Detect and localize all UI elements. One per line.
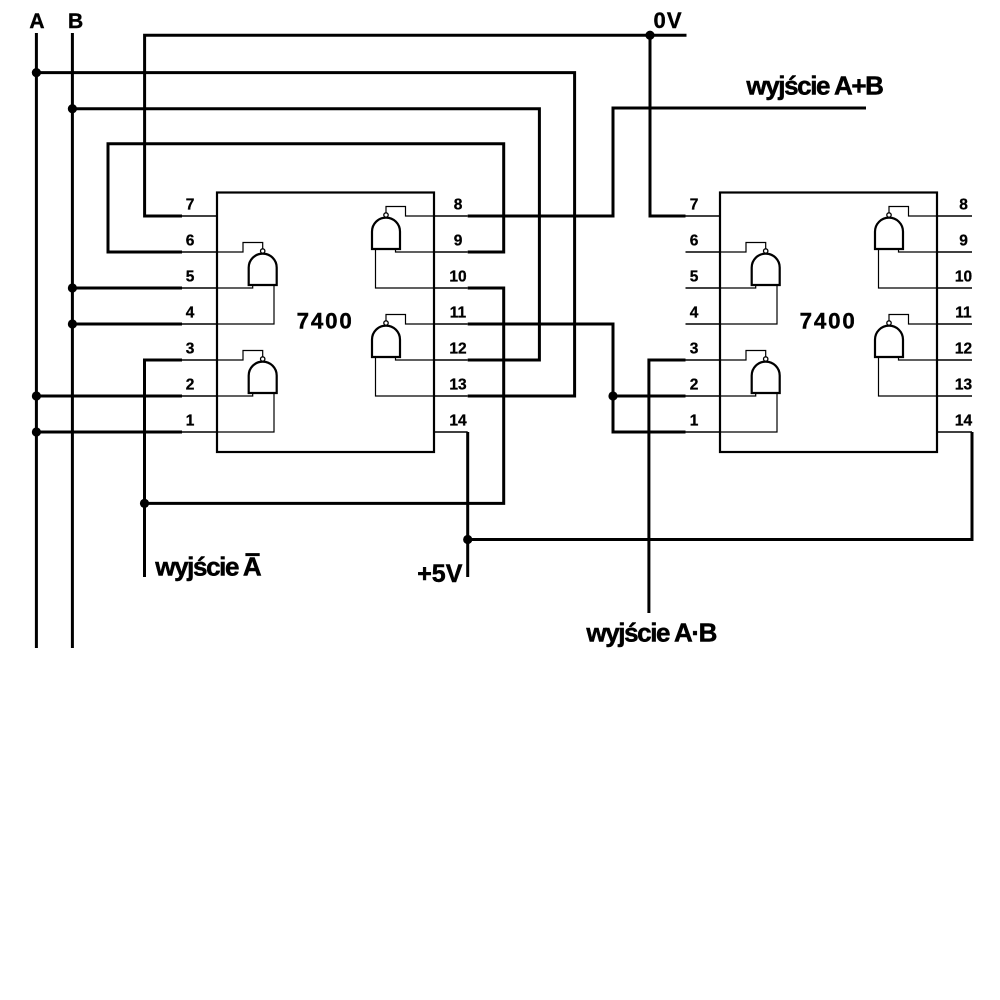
wire +5V node to U2 pin 14 xyxy=(468,432,972,540)
wire U1D input pin 13 xyxy=(376,357,435,396)
wire U2B output to pin 6 xyxy=(720,243,766,253)
pin 5 stub (U2) xyxy=(686,287,722,289)
wire U1 pin 11 to U2 pin 1 xyxy=(468,324,686,432)
wire U2 pin 3 to output A.B stub xyxy=(649,360,686,613)
NAND gate U2D body (output pin 11) xyxy=(875,321,903,357)
NAND gate U2B body (output pin 6) xyxy=(752,249,780,285)
svg-text:9: 9 xyxy=(454,232,463,249)
pin 2 stub (U1) xyxy=(182,395,218,397)
pin 8 stub (U1) xyxy=(433,215,468,217)
svg-text:10: 10 xyxy=(955,268,972,285)
wire A to U1 pin 13 xyxy=(36,73,574,396)
wire U2C input pin 9 xyxy=(899,249,938,252)
pin 14 stub (U2) xyxy=(936,431,972,433)
svg-text:8: 8 xyxy=(959,196,968,213)
wire U1D input pin 12 xyxy=(396,357,435,360)
svg-text:3: 3 xyxy=(690,340,699,357)
svg-text:1: 1 xyxy=(186,412,195,429)
wire U1 pin 8 to output A+B xyxy=(468,108,866,216)
svg-text:11: 11 xyxy=(450,304,467,321)
svg-text:wyjście A·B: wyjście A·B xyxy=(585,618,716,648)
svg-text:12: 12 xyxy=(449,340,466,357)
wire U2D input pin 12 xyxy=(899,357,938,360)
pin 6 stub (U2) xyxy=(686,251,722,253)
NAND gate U1A body (output pin 3) xyxy=(249,357,277,393)
svg-text:0V: 0V xyxy=(654,8,683,33)
svg-text:6: 6 xyxy=(186,232,195,249)
svg-text:14: 14 xyxy=(449,412,467,429)
wire U1 pin 14 to +5V stub xyxy=(466,432,469,577)
svg-text:3: 3 xyxy=(186,340,195,357)
NAND gate U1D body (output pin 11) xyxy=(372,321,400,357)
wire B to U1 pin 5 xyxy=(72,287,182,290)
svg-text:7: 7 xyxy=(186,196,195,213)
IC U2 7400 package outline xyxy=(720,193,937,453)
pin 11 stub (U2) xyxy=(936,323,972,325)
pin 3 stub (U2) xyxy=(686,359,722,361)
wire U1B output to pin 6 xyxy=(217,243,263,253)
pin 7 stub (U1) xyxy=(182,215,218,217)
svg-text:9: 9 xyxy=(959,232,968,249)
junction dot B / pin 5 xyxy=(68,283,77,292)
pin 13 stub (U2) xyxy=(936,395,972,397)
junction dot B upper xyxy=(68,104,77,113)
junction dot U2 pin 2 node xyxy=(608,391,617,400)
pin 1 stub (U1) xyxy=(182,431,218,433)
wire U1A input pin 2 xyxy=(217,393,253,396)
junction dot B / pin 4 xyxy=(68,319,77,328)
svg-text:14: 14 xyxy=(955,412,973,429)
svg-text:1: 1 xyxy=(690,412,699,429)
svg-text:8: 8 xyxy=(454,196,463,213)
svg-text:2: 2 xyxy=(186,376,195,393)
wire A-bar node to U1 pin 10 xyxy=(145,288,504,503)
wire U2C input pin 10 xyxy=(879,249,938,288)
svg-text:13: 13 xyxy=(955,376,973,393)
svg-text:5: 5 xyxy=(690,268,699,285)
junction dot A / pin 2 xyxy=(32,391,41,400)
input rail A (vertical) xyxy=(35,33,38,648)
pin 8 stub (U2) xyxy=(936,215,972,217)
pin 7 stub (U2) xyxy=(686,215,722,217)
wire U1B input pin 5 xyxy=(217,285,253,288)
pin 12 stub (U2) xyxy=(936,359,972,361)
wire B to U1 pin 12 xyxy=(72,109,539,360)
svg-text:2: 2 xyxy=(690,376,699,393)
junction dot A / pin 1 xyxy=(32,427,41,436)
pin 11 stub (U1) xyxy=(433,323,468,325)
svg-text:5: 5 xyxy=(186,268,195,285)
junction dot A upper xyxy=(32,68,41,77)
wire node to U2 pin 2 xyxy=(613,395,686,398)
pin 6 stub (U1) xyxy=(182,251,218,253)
wire B to U1 pin 4 xyxy=(72,323,182,326)
pin 13 stub (U1) xyxy=(433,395,468,397)
pin 4 stub (U1) xyxy=(182,323,218,325)
pin 2 stub (U2) xyxy=(686,395,722,397)
wire U2B input pin 5 xyxy=(720,285,756,288)
svg-text:6: 6 xyxy=(690,232,699,249)
wire U2D input pin 13 xyxy=(879,357,938,396)
pin 1 stub (U2) xyxy=(686,431,722,433)
pin 3 stub (U1) xyxy=(182,359,218,361)
svg-text:12: 12 xyxy=(955,340,972,357)
wire A to U1 pin 1 xyxy=(36,431,182,434)
svg-text:+5V: +5V xyxy=(417,560,463,588)
svg-text:B: B xyxy=(68,10,83,33)
pin 10 stub (U2) xyxy=(936,287,972,289)
svg-text:10: 10 xyxy=(449,268,466,285)
wire A to U1 pin 2 xyxy=(36,395,182,398)
wire U1D output to pin 11 xyxy=(386,315,434,325)
wire U2C output to pin 8 xyxy=(889,207,937,217)
wire U1A output to pin 3 xyxy=(217,351,263,361)
wire U2A output to pin 3 xyxy=(720,351,766,361)
wire U2A input pin 2 xyxy=(720,393,756,396)
svg-text:A: A xyxy=(29,10,44,33)
NAND gate U1B body (output pin 6) xyxy=(249,249,277,285)
pin 12 stub (U1) xyxy=(433,359,468,361)
svg-text:7400: 7400 xyxy=(297,308,354,333)
pin 9 stub (U2) xyxy=(936,251,972,253)
svg-text:7: 7 xyxy=(690,196,699,213)
wire U1A input pin 1 xyxy=(217,393,274,432)
pin 10 stub (U1) xyxy=(433,287,468,289)
pin 4 stub (U2) xyxy=(686,323,722,325)
junction dot 0V node xyxy=(645,31,654,40)
pin 9 stub (U1) xyxy=(433,251,468,253)
wire U1C output to pin 8 xyxy=(386,207,434,217)
svg-text:13: 13 xyxy=(449,376,467,393)
svg-text:wyjście A+B: wyjście A+B xyxy=(745,70,883,100)
NAND gate U2A body (output pin 3) xyxy=(752,357,780,393)
svg-text:4: 4 xyxy=(186,304,195,321)
wire U2A input pin 1 xyxy=(720,393,777,432)
wire U1 pin 6 to U1 pin 9 xyxy=(108,144,504,252)
svg-text:7400: 7400 xyxy=(800,308,857,333)
overline of A-bar xyxy=(245,553,259,556)
pin 14 stub (U1) xyxy=(433,431,468,433)
wire 0V node down to U2 pin 7 xyxy=(650,35,686,216)
wire 0V rail to U1 pin 7 xyxy=(145,35,687,216)
wire U1C input pin 10 xyxy=(376,249,435,288)
NAND gate U1C body (output pin 8) xyxy=(372,213,400,249)
IC U1 7400 package outline xyxy=(217,193,434,453)
input rail B (vertical) xyxy=(71,33,74,648)
NAND gate U2C body (output pin 8) xyxy=(875,213,903,249)
junction dot A-bar node xyxy=(140,499,149,508)
wire U1 pin 3 to output A-bar stub xyxy=(145,360,183,577)
pin 5 stub (U1) xyxy=(182,287,218,289)
wire U1B input pin 4 xyxy=(217,285,274,324)
svg-text:4: 4 xyxy=(690,304,699,321)
wire U1C input pin 9 xyxy=(396,249,435,252)
wire U2B input pin 4 xyxy=(720,285,777,324)
junction dot +5V node xyxy=(463,535,472,544)
wire U2D output to pin 11 xyxy=(889,315,937,325)
svg-text:11: 11 xyxy=(955,304,972,321)
